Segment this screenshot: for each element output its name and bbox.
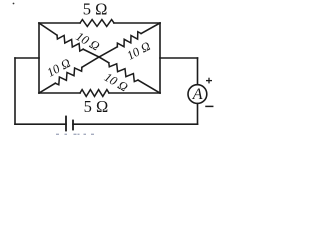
wire right branch upper	[197, 58, 199, 85]
svg-text:A: A	[192, 86, 203, 103]
svg-text:10 Ω: 10 Ω	[74, 29, 102, 53]
resistor 10 ohm top-right zigzag	[117, 32, 141, 47]
wire top edge right segment	[114, 22, 160, 24]
resistor 10 ohm top-left zigzag	[57, 35, 83, 51]
resistor 10 ohm bottom-right zigzag	[109, 63, 138, 82]
battery long plate	[65, 117, 67, 131]
wire bridge left edge	[38, 23, 40, 93]
wire bottom edge right segment	[109, 92, 160, 94]
wire right connector	[160, 57, 198, 59]
svg-text:5 Ω: 5 Ω	[84, 97, 109, 116]
ammeter A1 circle	[188, 85, 207, 104]
wire diagonal bottom-right to corner	[138, 80, 160, 93]
wire top edge left segment	[39, 22, 80, 24]
resistor 5 ohm bottom zigzag	[80, 90, 109, 97]
wire diagonal bottom-left lead	[39, 83, 55, 93]
wire bottom battery to right	[73, 123, 198, 125]
stray dot top left	[13, 3, 15, 5]
wire diagonal bottom-left to center	[82, 57, 99, 67]
svg-text:5 Ω: 5 Ω	[83, 0, 108, 19]
wire diagonal top-right lead	[141, 23, 160, 34]
cropped caption remnants bottom	[56, 134, 94, 135]
minus sign of ammeter	[206, 105, 213, 107]
plus sign of ammeter	[206, 78, 212, 84]
wire bottom left to battery	[15, 123, 66, 125]
wire left connector	[15, 57, 39, 59]
resistor 5 ohm top zigzag	[80, 20, 114, 27]
wire diagonal center to bottom-right lead	[99, 57, 109, 63]
wire left outer vertical	[14, 58, 16, 124]
wire bridge right edge	[159, 23, 161, 93]
wire diagonal top-left lead	[39, 23, 57, 35]
wire diagonal top-left to center	[83, 49, 99, 57]
resistor 10 ohm bottom-left zigzag	[55, 67, 82, 85]
wire bottom edge left segment	[39, 92, 80, 94]
wire right branch lower	[197, 104, 199, 125]
wire diagonal top-right to center	[99, 47, 117, 57]
battery short plate	[72, 121, 74, 130]
